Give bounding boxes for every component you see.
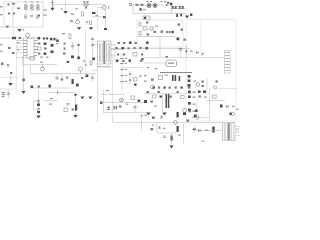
cap x164 y137 [163, 135, 166, 137]
capacitor CX1 [24, 14, 27, 16]
ground x90 [89, 97, 93, 100]
wire top bus [53, 4, 106, 6]
small mark right of arrow [23, 29, 25, 30]
marks x149 y129 [151, 128, 154, 130]
label above bus [67, 61, 70, 63]
marks x237 y109 [236, 109, 239, 110]
diode stack x64 a [63, 43, 66, 45]
electrolytic cap C11 dark [72, 79, 74, 84]
circle x215 y87 [213, 86, 216, 89]
cluster right of U1 c3 [38, 53, 40, 55]
ground small x75 top [74, 94, 78, 96]
wire y88 right faint [218, 88, 238, 90]
dark bar x172 [172, 75, 174, 81]
small box right of U1 [38, 47, 42, 50]
ground aux [8, 83, 12, 86]
diode below bus [66, 77, 69, 79]
dark comp below bus [76, 84, 79, 87]
marks x205 y97 [204, 97, 207, 98]
box B internal divider [200, 20, 202, 53]
wire bus y88 [30, 87, 70, 89]
comp x108 y107 [108, 107, 110, 109]
marks above fan [83, 1, 85, 2]
label x49 y104 [49, 104, 52, 105]
component in A 1 [139, 23, 141, 27]
wire T1 left lead [92, 44, 98, 46]
dark blob left x140 [140, 8, 142, 10]
wire vertical x30.5 to bus [30, 65, 32, 74]
label bottom a [40, 57, 43, 58]
cap row below bus b [61, 74, 63, 81]
capacitor C12 [66, 103, 69, 105]
label x139 y76 [139, 76, 142, 77]
wire y94 horizontal [100, 94, 125, 96]
junction x157 [156, 123, 158, 134]
ground x164 y113 [162, 113, 166, 116]
dark marks x135 y84 [134, 84, 137, 86]
box x214 y96 [213, 95, 217, 98]
dark pair x51 r1 [50, 38, 52, 40]
diode D8 circle [41, 67, 45, 71]
marks right of thermistor [76, 8, 78, 9]
component below A right [184, 39, 187, 41]
component in A right 2 [181, 29, 183, 31]
dark comp on x38 b [37, 111, 40, 113]
cluster right of U1 c1 [38, 37, 41, 39]
capacitor C2 plus marks [86, 21, 89, 24]
comp x78 vertical [78, 42, 80, 60]
dark under circle x184 [183, 113, 186, 116]
comp x203 y92 circle [196, 83, 200, 87]
row y96 comps [153, 95, 157, 98]
wire x38 vertical lower [38, 90, 40, 116]
dark pair circle x231 y114 [230, 113, 232, 116]
dark bar x179 [179, 76, 181, 81]
cap x135 vertical [134, 103, 136, 113]
wire y112 horizontal [104, 112, 149, 114]
marks x141 y115 [141, 115, 143, 116]
row y31 dark blob [171, 31, 173, 33]
capacitor C3 [90, 21, 92, 25]
dark blob x78 y57 [77, 57, 80, 60]
ground arrow C2 [89, 27, 93, 30]
AC input lead N label [0, 14, 3, 15]
resistor R6 [12, 52, 15, 54]
dark text x204 y91 [203, 91, 206, 93]
wire EMI box left lead [0, 26, 4, 28]
wire vertical x133 [132, 6, 134, 14]
comp x85 marks [85, 65, 88, 66]
marks x206 y130 [205, 130, 208, 131]
marks on x92 b [91, 45, 94, 46]
wire x92 vertical upper [92, 36, 94, 60]
diode lamp DS2 [153, 4, 157, 8]
T1 label text [97, 66, 111, 67]
wire main bus y73 [31, 73, 97, 75]
resistor R3 [136, 4, 139, 6]
small marks above row a [147, 1, 149, 2]
wire thermistor stub [97, 7, 103, 9]
comp x195 y116 dark [194, 115, 197, 117]
small box in A [143, 27, 147, 31]
IC U1 pins left [24, 40, 28, 42]
transformer T2 right winding [230, 123, 235, 141]
wires from U1 to left [16, 40, 24, 42]
comp x64 c [63, 53, 66, 55]
wire y100 horizontal [206, 100, 225, 102]
wire vertical right end [171, 5, 173, 13]
wire y117 horizontal [192, 117, 210, 119]
grid row1 comps [118, 42, 120, 44]
marks x152 y124 [152, 125, 154, 126]
comp x130 vertical [129, 70, 131, 85]
choke L1 winding b [30, 4, 33, 7]
dark wire y72 [160, 72, 192, 74]
tick x57 y92 [57, 91, 59, 95]
marks x179 y135 [178, 135, 181, 136]
capacitor C10 [37, 108, 40, 110]
branch wire x33 [33, 101, 35, 110]
text block left [2, 92, 6, 93]
comp x120 y106 [119, 106, 121, 108]
wire x207 vertical upper [206, 78, 208, 90]
SCR circle [76, 20, 80, 24]
component in A 4 [147, 34, 150, 36]
transformer T2 core bars [227, 123, 230, 141]
label left of U1 b [17, 49, 19, 50]
wire x162 vertical [162, 94, 164, 112]
capacitor CY2 [13, 13, 15, 15]
comp x72 y109 [72, 109, 74, 111]
row y31 blob b [161, 31, 164, 33]
grid row2 comps [116, 47, 118, 49]
transformer T2 left winding [223, 123, 228, 141]
thermistor TH2 circle [26, 33, 30, 37]
left edge label b [0, 51, 2, 52]
faint vertical x13.5 [13, 28, 15, 38]
choke L2 winding [36, 4, 39, 7]
small marks above row b [161, 1, 163, 2]
wire x75 vertical [75, 93, 77, 116]
junction marks x166 [166, 4, 168, 6]
wire top right bus [132, 4, 172, 6]
marks x155 y106 [154, 106, 157, 107]
wire y67 from tap column [122, 67, 144, 69]
comp x70 vertical [69, 34, 71, 39]
resistor R4 [141, 4, 144, 6]
wire T1 right lead 1 [111, 44, 115, 46]
circle on bus x175 [174, 121, 178, 125]
wire y65 horizontal [23, 64, 57, 66]
corner component box [143, 16, 150, 20]
label in A [155, 26, 158, 27]
cap row below bus a [56, 74, 58, 81]
dark blob x71 low [71, 56, 74, 59]
label left of x65 [61, 9, 63, 10]
sub-circuit box A outline [137, 20, 183, 47]
tick b below [155, 68, 158, 69]
capacitor C9 [37, 100, 40, 102]
small box x65 y108 [64, 108, 68, 112]
wire x197 vertical faint [196, 100, 198, 116]
resistor R1 [17, 8, 20, 10]
terminal tick lower [43, 14, 47, 16]
capacitor C8 vertical [8, 90, 10, 98]
dark blob x49 y86 [49, 85, 51, 88]
dark comp x190 y111 [189, 110, 191, 112]
dark bar x174.5 [175, 75, 177, 81]
wire y130 to transformer [196, 130, 222, 132]
comp x90 vertical [90, 61, 92, 65]
cap x194 y130 dark [193, 129, 196, 131]
relay RL1 dark [12, 37, 16, 39]
ground arrow at input [50, 8, 54, 11]
dark blob in corner box [144, 17, 146, 19]
diode vertical x186 [186, 45, 188, 58]
aux diode [7, 64, 10, 66]
right column dark comps [188, 75, 191, 78]
diode arrow down near box corner [185, 16, 189, 19]
T1 winding marks right [106, 43, 108, 62]
wire to IC2 [144, 62, 166, 64]
wire y100 left [44, 100, 58, 102]
arrow mark dark x65 [63, 11, 67, 14]
faint vertical x97 [97, 10, 99, 30]
wire T1 right lead 2 [111, 49, 122, 51]
wire x141 vertical [141, 114, 143, 131]
text column x193 [193, 92, 196, 93]
transformer T1 secondary box [105, 41, 111, 64]
protection device vertical [52, 0, 54, 8]
junction dark on bus [19, 37, 21, 39]
dark arrow above bus [17, 29, 21, 32]
terminal tick upper [43, 9, 47, 11]
tick on protection [51, 2, 54, 4]
wire x112 vertical [112, 56, 114, 122]
transistor Q2 circle [79, 67, 83, 71]
electrolytic x171 dark [171, 136, 173, 141]
grid row4 comps [116, 60, 118, 62]
connector J2 pins [225, 52, 230, 54]
transistor Q1 dark [177, 38, 180, 41]
capacitor CX2 [30, 15, 33, 17]
dark comp on x38 a [37, 104, 40, 106]
thyristor circle x184 [183, 109, 187, 113]
resistor R5 [8, 47, 11, 49]
marks x126 y104 [126, 104, 129, 105]
terminal circle [129, 3, 132, 6]
electrolytic x177 y113 dark [177, 112, 179, 118]
comp x199 y96 [199, 96, 201, 98]
box x160 y77 [159, 76, 163, 80]
diode lamp DS1 [147, 4, 151, 8]
dark mark on y16 stub [103, 16, 106, 18]
dark dot near CX3 [38, 15, 40, 17]
wire y48 long to right [111, 48, 190, 50]
comp x159 y129 diode [158, 127, 161, 129]
label under top wire [71, 14, 75, 15]
dark X x44 r4 [44, 53, 47, 55]
faint box bottom-left corner vertical [112, 118, 114, 122]
right col dark x188 [188, 91, 191, 94]
junction dark x101 [100, 102, 102, 104]
grid row3 comps [117, 54, 119, 56]
dark blob x51 r2 [51, 44, 54, 47]
row y91 comps [147, 91, 149, 93]
wire y92 horizontal [48, 92, 76, 94]
blob on y57 [166, 56, 168, 58]
capacitor near connector [201, 53, 204, 55]
capacitor CX3 [36, 14, 39, 16]
choke L1 winding a [24, 4, 27, 7]
capacitor C1 plus marks [70, 21, 73, 22]
cluster right of U1 c2 [38, 43, 40, 45]
aux comp b [10, 72, 12, 74]
dark cluster x221 y106 [220, 105, 223, 108]
capacitor CY1 [8, 13, 10, 15]
wire vertical inside EMI box [12, 2, 14, 27]
wire x171 vertical [171, 133, 173, 146]
left edge label a [0, 44, 2, 45]
diode on bus x161 y117 [160, 116, 163, 118]
dark twin bars x168 [168, 94, 170, 108]
connector J2 body [225, 51, 231, 74]
comp x216 y81 [216, 81, 218, 83]
wire y102 horizontal [101, 102, 144, 104]
diode pair dark A [171, 6, 174, 8]
comp right of T2 [237, 129, 239, 133]
EMI filter enclosure box [4, 2, 43, 27]
row y31 diode pair [166, 31, 168, 33]
dark comp x196 y110 [195, 110, 198, 112]
transformer T1 core bars [104, 41, 106, 64]
small box x135 y78 [134, 78, 138, 82]
dark x138 y100 [138, 100, 141, 102]
dark drop below bus a [176, 14, 178, 17]
ground x148 y113 [146, 113, 150, 116]
bridge rectifier BR1 [92, 12, 96, 14]
wire x183 vertical [183, 124, 185, 144]
fuse F1 [12, 3, 15, 5]
wire bottom bus [113, 122, 223, 124]
wire down from thermistor node [105, 5, 107, 28]
dark blob x44 r2 [44, 43, 47, 45]
circle x197 y117 [196, 116, 199, 119]
IC U1 box [27, 38, 34, 58]
wire inside A vertical [159, 37, 161, 58]
comp x151 y101 [151, 101, 153, 103]
IC U1 pins right [34, 40, 38, 42]
comp x57 cluster [56, 40, 59, 42]
dark X x51 r3 [51, 51, 54, 54]
ground arrow C1 [77, 27, 81, 30]
comp x199 y91 dark [198, 91, 201, 93]
input aux box right edge [16, 42, 18, 89]
wire vertical x23.5 [23, 38, 25, 91]
dark drop below bus b [180, 14, 182, 17]
comp x82 below bus [81, 77, 83, 79]
comp x92 vertical [92, 74, 94, 83]
wire L branch x22.5 [22, 56, 24, 65]
transistor Q4 circle [120, 98, 124, 102]
transistor Q3 circle [151, 85, 155, 89]
component in A 3 [139, 32, 141, 36]
tick right of thermistor [108, 6, 110, 9]
diode right x197 [196, 51, 198, 54]
input aux box divider edge [0, 77, 17, 79]
row y31 blob a [154, 31, 156, 33]
dark twin bars x166 [166, 94, 168, 108]
comp x152 y79 [151, 79, 154, 81]
component on x23 line [22, 79, 25, 82]
T2 lead right bottom [235, 135, 240, 137]
box x181 y97 [181, 96, 185, 99]
wire T1 left down lead [97, 64, 99, 122]
label left of U1 a [17, 42, 19, 43]
dark blob x44 r3 [44, 48, 47, 50]
ground x75 bottom [73, 115, 77, 118]
comp above bus right [83, 61, 86, 62]
tick a below [147, 67, 150, 68]
circle in A [150, 27, 153, 30]
label x62 y33 [62, 33, 65, 34]
label row2 left [143, 9, 146, 10]
marks x187 y120 [187, 120, 190, 122]
wire x209 vertical [209, 88, 211, 121]
comp x153 y117 [152, 117, 155, 119]
transformer T1 primary box [98, 41, 104, 64]
secondary tap column [121, 52, 123, 90]
label x50 y98 [50, 98, 53, 99]
tick below fan [85, 7, 87, 9]
IC2 rounded box [166, 60, 177, 67]
marks above D8 [40, 62, 43, 63]
comp x72 ticks [72, 42, 74, 50]
extra pin wires to left [17, 43, 24, 45]
wire bus y13 [133, 12, 187, 14]
wire y16 stub [92, 16, 104, 18]
varistor RV1 [8, 4, 10, 6]
input aux box bottom edge [0, 88, 17, 90]
blob y86 b [38, 86, 40, 88]
small box bottom of U1 area [30, 57, 35, 61]
electrolytic C13 dark [75, 105, 77, 111]
diode mark end of vertical [104, 28, 107, 30]
ground at x23 [21, 91, 25, 94]
thermistor TH1 [103, 6, 107, 10]
diode pair dark B [178, 6, 181, 8]
blob at far right row [190, 14, 192, 16]
marks x166 y75 [165, 75, 168, 76]
wire y93 horizontal [144, 93, 192, 95]
ground x38 [36, 116, 40, 119]
faint vertical x85 [85, 30, 87, 74]
component in A right 1 [178, 24, 181, 26]
label right of T1 [141, 59, 144, 60]
electrolytic x177 y127 dark [177, 126, 179, 132]
wire y133 horizontal [157, 132, 176, 134]
wire bus under EMI box [0, 37, 57, 39]
resistor R2 vertical [82, 12, 84, 16]
T2 lead right top [235, 126, 240, 128]
marks on x92 a [91, 39, 94, 40]
comp x145 y101 dark [144, 100, 147, 103]
diode x213 y130 dark vertical [212, 127, 214, 133]
comp left edge y75 [144, 75, 147, 76]
wire aux vertical [10, 75, 12, 83]
wire y70 stub to T1 [92, 70, 98, 72]
marks x194 y81 [194, 81, 197, 82]
